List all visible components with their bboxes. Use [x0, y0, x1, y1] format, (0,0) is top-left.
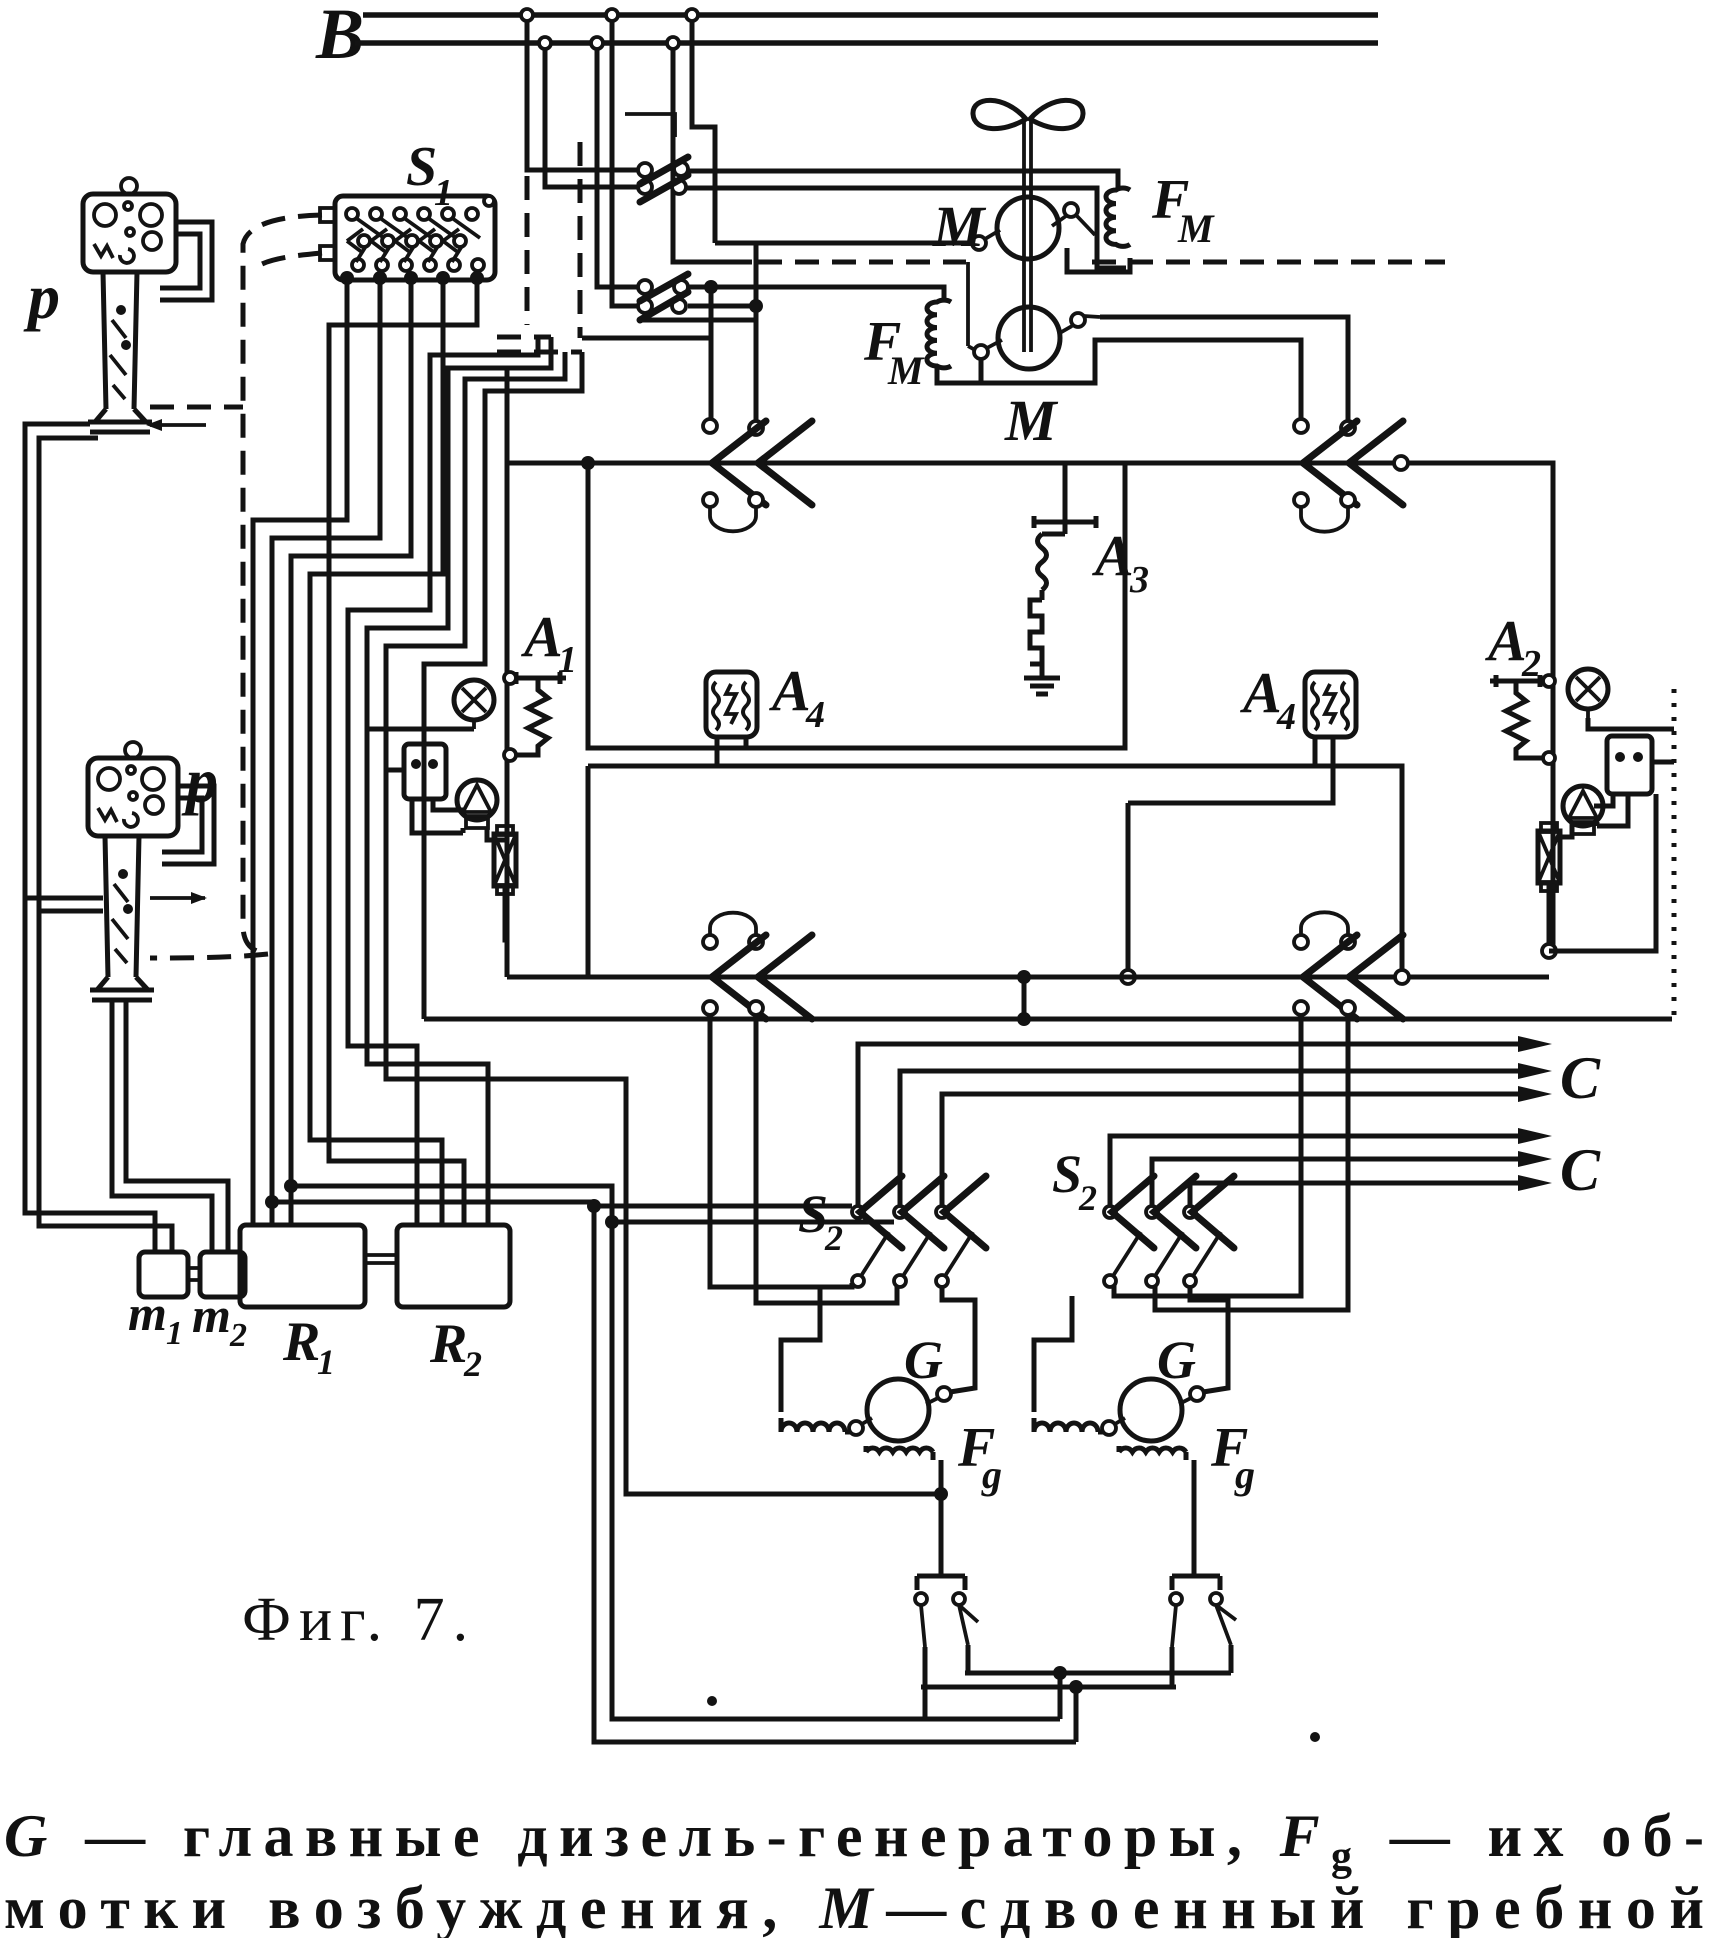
svg-text:G: G	[904, 1330, 943, 1390]
relay box left	[404, 744, 446, 799]
wire arrow into controller p upper	[150, 423, 206, 427]
wire drop x=711 to contactor K1 top	[709, 287, 714, 419]
propeller	[973, 100, 1083, 128]
selector S2 left pole 3	[936, 1176, 986, 1287]
bottom switch right	[1170, 1576, 1236, 1647]
switch knife lower pole b contacts	[638, 299, 652, 313]
wire funnel s1 from dash region to R2	[348, 337, 538, 1225]
svg-text:S: S	[798, 1184, 828, 1244]
wire bus line 1	[363, 12, 1378, 18]
relay A3 stepped resistor	[1030, 600, 1042, 672]
svg-text:m: m	[192, 1287, 231, 1343]
wire feeder x=612 branch to S2 left pole2	[612, 1220, 894, 1225]
node dot junction x=941 y=1494	[934, 1487, 948, 1501]
generator G right brushes	[1102, 1421, 1116, 1435]
svg-text:M: M	[887, 348, 925, 393]
wire dashed tail to p lower	[150, 954, 268, 958]
bottom switch left	[915, 1576, 978, 1647]
wire bundle branch to long feeder x=612	[291, 1186, 1060, 1719]
wire A4 right lower link y=803	[1128, 737, 1333, 803]
switch knife upper pole b contacts	[638, 180, 652, 194]
svg-text:2: 2	[463, 1344, 482, 1384]
svg-text:Фиг. 7.: Фиг. 7.	[242, 1586, 476, 1654]
relay A3 ground	[1024, 672, 1060, 694]
wire dash-dot y=262 right section	[1092, 260, 1445, 265]
wire S1 terminal3 to bundle	[291, 278, 411, 1225]
relay A4 right box	[1305, 672, 1356, 737]
wire cross link y=320	[640, 318, 756, 323]
field coil Fg right	[1119, 1446, 1186, 1460]
motor M2 armature	[998, 307, 1060, 369]
switch bank S1 left terminal upper	[320, 208, 335, 222]
wire motor M2 feed line y=306	[688, 304, 756, 309]
wire S1 terminal4 to bundle then R2	[310, 278, 443, 1225]
triangle lamp left	[457, 780, 497, 820]
svg-text:g: g	[981, 1452, 1002, 1497]
svg-text:1: 1	[166, 1315, 183, 1352]
relay A3 T-bar	[1034, 516, 1096, 528]
wires cluster left interconnect	[412, 799, 507, 940]
svg-text:M: M	[1004, 388, 1059, 453]
controller p lower column	[97, 836, 148, 990]
selector S2 left pole 2	[894, 1176, 944, 1287]
wire Fg left to bottom switch	[939, 1460, 944, 1576]
svg-text:C: C	[1560, 1045, 1601, 1111]
svg-text:M: M	[932, 194, 987, 259]
wire S2 left staircase to commutating coil	[781, 1287, 820, 1412]
svg-text:p: p	[23, 261, 60, 332]
wire right cluster loop to rail	[1549, 794, 1656, 951]
svg-text:4: 4	[1276, 696, 1296, 738]
wire Fg right to bottom switch	[1192, 1460, 1197, 1576]
wire funnel s3 to long feeder x=626	[386, 352, 941, 1494]
wire bottom switch right pole2 to h1	[1229, 1645, 1234, 1673]
svg-text:S: S	[1052, 1144, 1082, 1204]
wire funnel s4 to long bottom line y=1019	[424, 352, 582, 1019]
wire feeder x=594 branch to S2 left pole1	[594, 1204, 852, 1209]
wire A4 right to x=1128 drop	[1126, 803, 1131, 977]
contactor K3 bottom-left	[703, 913, 812, 1019]
switch bank S1 top contact row	[346, 208, 478, 220]
wire bus drop x=527 to upper knife switch	[527, 21, 637, 170]
svg-text:M: M	[1177, 206, 1215, 251]
controller p lower handle	[162, 786, 214, 864]
field coil FM2	[927, 300, 951, 368]
node dot (1060,1673)	[1053, 1666, 1067, 1680]
wire cross link y=338	[582, 336, 711, 341]
wire M2 frame bottom to contactor K2	[981, 340, 1301, 419]
node dot at (1024,977)	[1017, 970, 1031, 984]
wire S2 right pole3 to right brush	[1190, 1285, 1228, 1392]
controller p lower top nub	[125, 742, 141, 758]
wire motor M1 feed line y=171	[688, 171, 1118, 190]
wire controller p lower outputs to m boxes	[112, 1000, 228, 1252]
switch knife upper blades	[640, 157, 688, 202]
lamp with cross left	[454, 680, 494, 720]
wire 1060 drop to y=1719	[1058, 1673, 1063, 1719]
wire motor M1 feed line y=188	[686, 188, 1126, 268]
node dot on feeder x=594 at y=1206	[587, 1199, 601, 1213]
wire main bottom line y=977	[507, 975, 1549, 980]
wire bus drop x=597 to lower knife switch	[597, 49, 637, 287]
wire drop x=756 to contactor K1 top	[754, 243, 759, 421]
commutating coil left G	[781, 1418, 851, 1432]
controller p upper column	[95, 272, 146, 422]
wire lamp feed from bundle	[367, 727, 474, 732]
wire dashed stub x=527 below switch	[525, 176, 530, 325]
node circle on main line right	[1394, 456, 1408, 470]
node dot on feeder x=612 at y=1222	[605, 1215, 619, 1229]
node stray dot	[707, 1696, 717, 1706]
switch bank S1 bottom contact row	[352, 259, 484, 271]
selector S2 left pole 1	[852, 1176, 902, 1287]
relay A4 left box	[706, 672, 757, 737]
node junction on bus2 x=673	[667, 37, 679, 49]
wire dash link S1 to funnel b	[497, 350, 582, 355]
svg-text:A: A	[521, 604, 563, 669]
wire contactor K4 drop b to S2 right pole2 bottom	[1155, 1015, 1348, 1310]
wire bus drop x=692 to vertical feeder x=715	[692, 21, 715, 243]
controller p lower box	[88, 758, 178, 836]
wire motor M2 feed line y=287 to field coil FM2	[688, 287, 944, 300]
relay A4 right coils	[1312, 682, 1348, 730]
motor M1 armature	[997, 197, 1059, 259]
wire relay box left feed	[386, 768, 404, 773]
resistor box m1	[139, 1252, 188, 1297]
relay A3 coil wiggle	[1038, 522, 1066, 600]
contactor K4 bottom-right	[1294, 912, 1403, 1019]
wire S2 left pole3 to right brush	[942, 1285, 975, 1392]
node stray dot right	[1310, 1732, 1320, 1742]
shaft of twin motor	[1024, 118, 1031, 352]
wire C arrow line 1 from S2 left pole1	[858, 1044, 1530, 1206]
wire C arrow line 4 from S2 right pole1	[1110, 1136, 1530, 1206]
node dot at (1024,1019)	[1017, 1012, 1031, 1026]
node dot bundle to 590 feeder	[265, 1195, 279, 1209]
node junction dot at (756,306)	[749, 299, 763, 313]
node junction dot on y=287 line at x=711	[704, 280, 718, 294]
svg-text:A: A	[1092, 523, 1134, 588]
wire C arrow line 3 from S2 left pole3	[942, 1094, 1530, 1206]
node junction on bus1 x=692	[686, 9, 698, 21]
svg-text:3: 3	[1129, 559, 1149, 601]
wire A4 left bottom leads	[717, 737, 746, 766]
switch knife lower pole a contacts	[638, 280, 652, 294]
switch bank S1 blades	[356, 218, 480, 262]
wire A4 right bottom lead	[1313, 737, 1318, 766]
wire contactor K4 drop a to S2 right pole1 bottom	[1114, 1015, 1301, 1296]
svg-text:p: p	[181, 745, 218, 816]
wire funnel s2 to R2	[367, 337, 551, 1225]
lamp with cross right	[1568, 669, 1608, 709]
svg-text:A: A	[769, 658, 811, 723]
svg-text:C: C	[1560, 1137, 1601, 1203]
svg-text:2: 2	[824, 1218, 843, 1258]
wire relay box right stub	[1652, 760, 1674, 765]
motor M2 left brush	[974, 345, 988, 359]
resistor box m2	[200, 1252, 245, 1297]
relay A2 T-bar with zigzag	[1490, 675, 1546, 687]
wire branch to controller p lower at y=898	[25, 896, 103, 901]
controller p upper handle	[160, 222, 212, 300]
wire S2 right staircase to commutating coil	[1034, 1296, 1072, 1412]
wire C arrow line 2 from S2 left pole2	[900, 1071, 1530, 1206]
wire dashed vertical x=580	[578, 142, 583, 338]
svg-text:A: A	[1240, 660, 1282, 725]
wire lamp right link to dotted rail	[1588, 718, 1674, 729]
fuse left	[494, 834, 516, 886]
svg-text:S: S	[406, 136, 437, 198]
svg-text:R: R	[429, 1313, 467, 1375]
commutating coil right G	[1034, 1418, 1104, 1432]
svg-text:B: B	[315, 0, 364, 74]
node junction on bus2 x=545	[539, 37, 551, 49]
svg-text:m: m	[128, 1285, 167, 1341]
node junction on bus2 x=597	[591, 37, 603, 49]
svg-text:A: A	[1485, 608, 1527, 673]
wire main top line y=463	[507, 370, 1553, 951]
switch bank S1 box	[335, 196, 495, 280]
generator G left armature	[867, 1379, 929, 1441]
wire dash link S1 to funnel a	[497, 335, 551, 340]
wire bottom link h1 y=1673	[965, 1671, 1231, 1676]
relay A4 left coils	[713, 682, 749, 730]
node junction on bus1 x=527	[521, 9, 533, 21]
wire bottom line y=1719	[612, 1717, 1060, 1722]
wire long line y=1019	[424, 1017, 1672, 1022]
switch bank S1 middle contact row with chevrons	[347, 229, 466, 253]
selector S2 right pole 1	[1104, 1176, 1154, 1287]
relay A1 T-bar with zigzag	[510, 672, 566, 684]
wire S1 terminal2 to bundle	[272, 278, 380, 1225]
wire bundle branch to long feeder x=594	[272, 1202, 1076, 1742]
wire S1 terminal1 to bundle	[253, 278, 347, 1225]
svg-text:g: g	[1234, 1452, 1255, 1497]
wire contactor K3 drop b to S2 left pole2 bottom	[756, 1015, 897, 1303]
node dot (1076,1687)	[1069, 1680, 1083, 1694]
wires cluster right interconnect	[1549, 794, 1628, 951]
field coil FM1	[1106, 188, 1130, 246]
controller p upper top nub	[121, 178, 137, 194]
wire bus drop x=673 to motor brush dash line	[673, 49, 752, 262]
fuse right	[1538, 831, 1560, 883]
generator G right armature	[1120, 1379, 1182, 1441]
wire dashed control line from S1 to controllers	[243, 215, 322, 954]
resistor box R1	[240, 1225, 365, 1307]
relay A3 stem	[1063, 465, 1068, 520]
svg-text:1: 1	[317, 1342, 335, 1382]
node dot inner rect top-left	[581, 456, 595, 470]
triangle lamp right	[1563, 786, 1603, 826]
wire dashed branch to p upper	[150, 405, 243, 410]
wire dash-dot y=262 to M2 left brush	[758, 260, 966, 265]
node circle at (1128,977)	[1121, 970, 1135, 984]
wire middle rect left edge	[586, 766, 591, 977]
node circle rail at 951	[1542, 944, 1556, 958]
switch knife upper pole a contacts	[638, 163, 652, 177]
wire far-left pair to p upper flare	[25, 424, 172, 1252]
svg-text:4: 4	[805, 694, 825, 736]
wire contactor K3 drop a to S2 left pole1 bottom	[710, 1015, 852, 1287]
wire M2 right brush to contactor K2	[1100, 317, 1348, 421]
wire C arrow line 6 from S2 right pole3	[1190, 1183, 1530, 1206]
wire stub 1024 to long line	[1022, 977, 1027, 1019]
switch bank S1 bottom terminals	[340, 271, 484, 285]
wire M1 left brush line y=243	[715, 241, 972, 246]
controller p upper column marks	[110, 320, 126, 399]
wire bus line 2	[355, 40, 1378, 46]
node dot bundle to 612 feeder	[284, 1179, 298, 1193]
generator G left brushes	[849, 1421, 863, 1435]
selector S2 right pole 2	[1146, 1176, 1196, 1287]
switch bank S1 left terminal lower	[320, 246, 335, 260]
node junction on bus1 x=612	[606, 9, 618, 21]
wire bottom switch right pole1 to h2	[1172, 1647, 1176, 1687]
wire C arrow line 5 from S2 right pole2	[1152, 1159, 1530, 1206]
controller p upper internals	[94, 204, 116, 226]
wire dashed branch S1 lower-left terminal	[255, 253, 322, 268]
motor M1 right brush	[1064, 203, 1078, 217]
wire bus drop x=545 to upper knife switch	[545, 49, 637, 187]
svg-text:2: 2	[229, 1317, 247, 1354]
wire bottom line y=1742	[594, 1740, 1076, 1745]
wire arrow into controller p lower	[150, 896, 205, 900]
motor M1 left brush	[972, 236, 986, 250]
wire bottom switch left pole2 to h1	[966, 1645, 971, 1673]
wire outer rect left edge	[505, 463, 510, 977]
controller p lower column marks	[112, 884, 128, 963]
field coil Fg left	[866, 1446, 933, 1460]
controller p lower internals	[98, 768, 120, 790]
wire small hook near bus drop	[625, 114, 675, 137]
contactor K1 top chevrons	[703, 419, 812, 531]
wire middle rect y=766	[588, 766, 1402, 977]
selector S2 right pole 3	[1184, 1176, 1234, 1287]
wire dotted rail right	[1672, 689, 1677, 1019]
controller p upper base	[88, 422, 152, 432]
controller p lower base	[90, 990, 154, 1000]
node circle at (1402,977)	[1395, 970, 1409, 984]
svg-text:R: R	[282, 1311, 320, 1373]
wire bottom switch left pole1 down	[923, 1647, 928, 1719]
contactor K2 top chevrons	[1294, 419, 1403, 532]
wire S1 terminal5 to bundle then R2	[329, 278, 477, 1225]
controller p upper box	[83, 194, 176, 272]
resistor box R2	[397, 1225, 510, 1307]
svg-text:G: G	[1157, 1330, 1196, 1390]
wire inner rect around A3	[588, 463, 1125, 748]
switch knife lower blades	[640, 274, 688, 320]
wire link R1-R2	[365, 1255, 397, 1263]
wire 1076 drop to y=1742	[1074, 1687, 1079, 1742]
wire branch to controller p lower at y=911	[39, 909, 103, 914]
relay box right	[1607, 736, 1652, 794]
wire bus drop x=612 to lower knife switch	[612, 21, 637, 306]
svg-text:2: 2	[1078, 1178, 1097, 1218]
motor M2 right brush	[1071, 313, 1085, 327]
wire link m1-m2	[188, 1268, 200, 1280]
wire bottom link h2 y=1687	[921, 1685, 1176, 1690]
